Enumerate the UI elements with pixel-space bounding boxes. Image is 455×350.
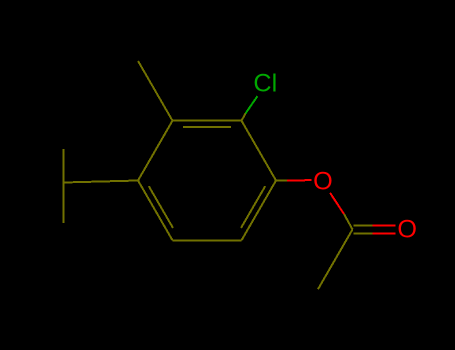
bond C1-O ester olive half (277, 179, 288, 181)
benzene ring bond C5-C6 (173, 239, 242, 241)
bond O-C carbonyl olive half (344, 214, 353, 229)
bond C3 - methyl CH3 (up-left) (138, 61, 173, 121)
svg-text:Cl: Cl (253, 69, 277, 97)
bond C2-Cl olive half (242, 113, 246, 120)
benzene ring inner double line C4=C5 (149, 186, 173, 228)
bond C4 - tert-butyl quaternary C (64, 181, 139, 183)
C=O double bond upper line red half (373, 224, 396, 226)
svg-text:O: O (397, 215, 417, 243)
benzene ring bond C1-C2 (242, 121, 277, 181)
benzene ring bond C3-C4 (138, 121, 173, 181)
tert-butyl methyl up (63, 149, 65, 183)
svg-text:O: O (313, 167, 333, 195)
bond O-C carbonyl red half (330, 193, 344, 214)
C=O double bond lower line olive half (354, 233, 373, 235)
C=O double bond lower line red half (373, 233, 396, 235)
benzene ring bond C6-C1 (242, 181, 277, 241)
C=O double bond upper line olive half (354, 224, 373, 226)
tert-butyl methyl down (63, 183, 65, 224)
bond C2-Cl green half (246, 96, 258, 113)
benzene ring bond C4-C5 (138, 181, 173, 241)
bond C1-O ester red half (287, 179, 311, 181)
benzene ring inner double line C6=C1 (241, 186, 265, 228)
benzene ring bond C2-C3 (173, 120, 242, 122)
bond carbonyl C - methyl CH3 (318, 229, 353, 289)
benzene ring inner double line C2=C3 (183, 126, 231, 128)
